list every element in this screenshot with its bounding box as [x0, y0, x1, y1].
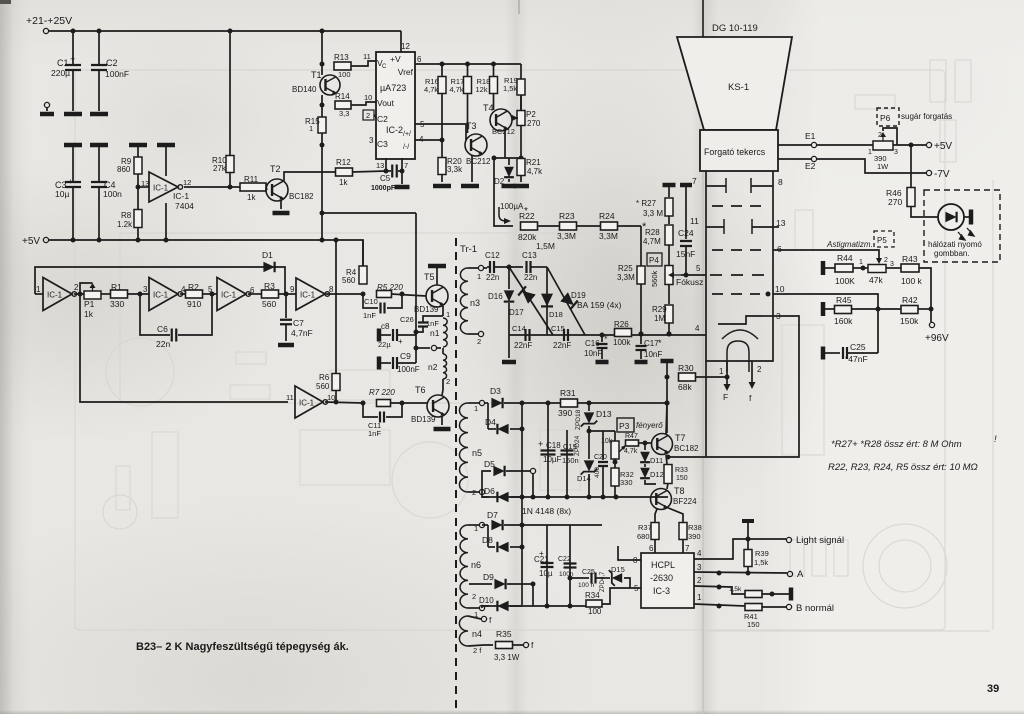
svg-text:R26: R26 — [614, 320, 629, 329]
svg-text:gombban.: gombban. — [934, 249, 970, 258]
svg-text:2: 2 — [757, 365, 762, 374]
svg-text:390: 390 — [558, 408, 572, 418]
svg-text:100K: 100K — [835, 276, 855, 286]
svg-text:150n: 150n — [562, 456, 579, 465]
svg-text:7: 7 — [692, 176, 697, 186]
svg-text:1: 1 — [36, 285, 41, 294]
svg-text:100n: 100n — [103, 189, 122, 199]
svg-text:1: 1 — [868, 149, 872, 156]
svg-text:1: 1 — [719, 367, 724, 376]
svg-text:D19: D19 — [571, 291, 586, 300]
svg-text:10: 10 — [364, 93, 372, 102]
svg-text:2: 2 — [477, 337, 481, 346]
svg-text:D8: D8 — [482, 535, 493, 545]
svg-text:IC-1: IC-1 — [153, 184, 169, 193]
svg-text:Vref: Vref — [398, 67, 414, 77]
svg-text:39: 39 — [987, 683, 999, 695]
svg-text:1k: 1k — [339, 178, 348, 187]
svg-text:+V: +V — [390, 54, 401, 64]
svg-text:1,5k: 1,5k — [503, 84, 517, 93]
svg-text:n3: n3 — [470, 298, 480, 308]
svg-text:6: 6 — [777, 244, 782, 254]
svg-text:330: 330 — [620, 478, 633, 487]
svg-text:150: 150 — [676, 475, 688, 482]
svg-text:sugár forgatás: sugár forgatás — [901, 112, 952, 121]
svg-text:100nF: 100nF — [105, 69, 129, 79]
svg-text:3: 3 — [143, 285, 148, 294]
svg-text:10µ: 10µ — [55, 189, 69, 199]
svg-text:R2: R2 — [188, 282, 199, 292]
svg-text:10µ: 10µ — [539, 569, 553, 578]
svg-text:+5V: +5V — [934, 141, 952, 152]
svg-text:T8: T8 — [674, 486, 685, 496]
svg-text:Light signál: Light signál — [796, 535, 844, 546]
svg-text:E1: E1 — [805, 131, 816, 141]
svg-text:330: 330 — [110, 299, 124, 309]
svg-text:D15: D15 — [611, 565, 625, 574]
svg-text:270: 270 — [888, 197, 902, 207]
svg-text:µA723: µA723 — [380, 83, 406, 93]
svg-text:3,3 1W: 3,3 1W — [494, 653, 520, 662]
svg-text:5: 5 — [634, 584, 639, 593]
svg-text:C16: C16 — [585, 339, 600, 348]
svg-text:R43: R43 — [902, 254, 918, 264]
svg-text:R21: R21 — [526, 158, 541, 167]
svg-text:10nF: 10nF — [644, 350, 662, 359]
svg-text:R3: R3 — [264, 281, 275, 291]
svg-text:1: 1 — [477, 272, 481, 281]
svg-text:7: 7 — [685, 544, 690, 553]
svg-text:HCPL: HCPL — [651, 560, 675, 570]
svg-text:22n: 22n — [486, 273, 499, 282]
svg-text:1nF: 1nF — [426, 319, 439, 328]
svg-text:C7: C7 — [293, 318, 304, 328]
svg-text:11: 11 — [690, 216, 699, 226]
svg-text:4: 4 — [695, 324, 700, 333]
svg-text:2: 2 — [74, 283, 79, 292]
svg-text:R14: R14 — [335, 92, 350, 101]
svg-text:400: 400 — [594, 467, 601, 478]
svg-text:4,7k: 4,7k — [450, 85, 464, 94]
svg-text:5: 5 — [696, 264, 701, 273]
svg-text:n6: n6 — [471, 560, 481, 570]
svg-text:+: + — [539, 549, 544, 558]
svg-text:1.2k: 1.2k — [117, 220, 133, 229]
svg-text:C1: C1 — [57, 58, 69, 68]
svg-text:1,5M: 1,5M — [536, 241, 555, 251]
svg-text:R12: R12 — [336, 158, 351, 167]
svg-text:11: 11 — [286, 393, 294, 402]
svg-text:R22: R22 — [519, 211, 535, 221]
svg-text:1k: 1k — [247, 193, 256, 202]
svg-text:IC-1: IC-1 — [299, 399, 315, 408]
svg-text:* R27: * R27 — [636, 199, 657, 208]
svg-text:1k: 1k — [84, 309, 94, 319]
svg-text:fényerő: fényerő — [636, 421, 663, 430]
svg-text:100 k: 100 k — [901, 276, 923, 286]
svg-text:4,7M: 4,7M — [643, 237, 661, 246]
svg-text:10: 10 — [775, 284, 785, 294]
svg-text:Tr-1: Tr-1 — [460, 244, 477, 255]
svg-text:R30: R30 — [678, 363, 694, 373]
svg-text:C9: C9 — [400, 351, 411, 361]
svg-text:3,3: 3,3 — [339, 109, 349, 118]
svg-text:B23– 2 K Nagyfeszültségű té: B23– 2 K Nagyfeszültségű tépegység ák. — [136, 641, 349, 653]
svg-text:*: * — [604, 334, 608, 344]
svg-text:1: 1 — [309, 124, 313, 133]
svg-text:P1: P1 — [84, 299, 95, 309]
svg-text:1M: 1M — [654, 314, 665, 323]
svg-text:+: + — [538, 439, 543, 449]
svg-text:D12: D12 — [650, 470, 664, 479]
svg-text:R44: R44 — [837, 253, 853, 263]
svg-text:IC-2: IC-2 — [386, 125, 403, 135]
svg-text:680: 680 — [637, 532, 650, 541]
svg-text:910: 910 — [187, 299, 201, 309]
svg-text:1nF: 1nF — [363, 311, 376, 320]
svg-text:D4: D4 — [485, 417, 496, 427]
svg-text:2: 2 — [472, 488, 476, 497]
svg-text:3,3M: 3,3M — [617, 273, 635, 282]
svg-text:P5: P5 — [877, 236, 887, 245]
svg-text:C17: C17 — [644, 339, 659, 348]
svg-text:IC-1: IC-1 — [47, 291, 63, 300]
svg-text:KS-1: KS-1 — [728, 82, 749, 93]
svg-text:P2: P2 — [526, 110, 536, 119]
svg-text:6: 6 — [649, 544, 654, 553]
svg-text:F: F — [723, 392, 728, 402]
svg-text:T2: T2 — [270, 164, 281, 174]
svg-text:D5: D5 — [484, 459, 495, 469]
svg-text:270: 270 — [527, 119, 541, 128]
svg-text:4,7k: 4,7k — [527, 167, 543, 176]
svg-text:T6: T6 — [415, 385, 426, 395]
svg-text:n1: n1 — [430, 328, 440, 338]
svg-text:1nF: 1nF — [368, 429, 381, 438]
svg-text:D9: D9 — [483, 572, 494, 582]
svg-text:+21-+25V: +21-+25V — [26, 15, 72, 27]
svg-text:3: 3 — [369, 136, 374, 145]
svg-text:560k: 560k — [650, 270, 659, 287]
svg-text:10nF: 10nF — [584, 349, 602, 358]
svg-text:1: 1 — [859, 259, 863, 266]
svg-text:DG 10-119: DG 10-119 — [712, 23, 758, 34]
svg-text:68k: 68k — [678, 382, 692, 392]
svg-text:100nF: 100nF — [397, 365, 420, 374]
svg-text:Astigmatizm.: Astigmatizm. — [826, 240, 873, 249]
svg-text:*47nF: *47nF — [845, 354, 868, 364]
svg-text:7404: 7404 — [175, 201, 194, 211]
svg-text:22µ: 22µ — [378, 340, 391, 349]
svg-text:R42: R42 — [902, 295, 918, 305]
svg-text:C3: C3 — [377, 139, 388, 149]
svg-text:R8: R8 — [121, 211, 132, 220]
svg-text:R33: R33 — [675, 467, 688, 474]
svg-text:R13: R13 — [334, 53, 349, 62]
svg-text:D13: D13 — [596, 409, 612, 419]
svg-text:12: 12 — [401, 42, 410, 51]
svg-text:8: 8 — [329, 285, 334, 294]
svg-text:R28: R28 — [645, 228, 660, 237]
svg-text:-2630: -2630 — [650, 573, 673, 583]
svg-text:47k: 47k — [869, 275, 883, 285]
svg-text:1: 1 — [446, 310, 450, 319]
svg-text:C10: C10 — [364, 297, 378, 306]
svg-text:4: 4 — [697, 549, 702, 558]
svg-text:R37: R37 — [638, 523, 652, 532]
svg-text:C25: C25 — [582, 569, 595, 576]
svg-text:4,7nF: 4,7nF — [291, 328, 313, 338]
svg-text:220µ: 220µ — [51, 68, 70, 78]
svg-text:820k: 820k — [518, 232, 537, 242]
svg-text:C13: C13 — [522, 251, 537, 260]
svg-text:R34: R34 — [585, 591, 600, 600]
svg-text:3: 3 — [894, 149, 898, 156]
svg-text:BC212: BC212 — [466, 157, 491, 166]
svg-text:BC182: BC182 — [674, 444, 699, 453]
svg-text:15nF: 15nF — [676, 249, 695, 259]
svg-text:22n: 22n — [156, 339, 170, 349]
svg-text:C12: C12 — [485, 251, 500, 260]
svg-text:A: A — [797, 569, 804, 580]
svg-text:R7 220: R7 220 — [369, 388, 395, 397]
svg-text:E2: E2 — [805, 161, 816, 171]
svg-text:12: 12 — [183, 178, 191, 187]
svg-text:R24: R24 — [599, 211, 615, 221]
svg-text:10µF: 10µF — [543, 455, 562, 464]
svg-text:1: 1 — [697, 593, 702, 602]
svg-text:3,3M: 3,3M — [557, 231, 576, 241]
svg-text:R1: R1 — [111, 282, 122, 292]
svg-text:560: 560 — [316, 382, 330, 391]
svg-text:n2: n2 — [428, 362, 438, 372]
svg-text:C15: C15 — [551, 324, 565, 333]
svg-text:hálózati nyomó: hálózati nyomó — [928, 240, 982, 249]
svg-text:100k: 100k — [613, 338, 631, 347]
svg-text:B normál: B normál — [796, 603, 834, 614]
svg-text:2: 2 — [878, 132, 882, 139]
svg-text:BC182: BC182 — [289, 192, 314, 201]
svg-text:3,3M: 3,3M — [599, 231, 618, 241]
svg-text:c8: c8 — [381, 322, 390, 331]
svg-text:D2: D2 — [494, 177, 505, 186]
svg-text:Forgató tekercs: Forgató tekercs — [704, 147, 766, 157]
svg-text:10k: 10k — [601, 438, 613, 445]
svg-text:R39: R39 — [755, 549, 769, 558]
svg-text:P6: P6 — [880, 113, 891, 123]
svg-text:C20: C20 — [594, 454, 607, 461]
svg-text:BD140: BD140 — [292, 85, 317, 94]
svg-text:100µA: 100µA — [500, 202, 524, 211]
svg-text:D7: D7 — [487, 510, 498, 520]
svg-text:f: f — [749, 393, 752, 403]
svg-text:+: + — [68, 177, 73, 186]
svg-text:R35: R35 — [496, 629, 512, 639]
svg-text:f: f — [531, 640, 534, 650]
svg-text:22n: 22n — [524, 273, 537, 282]
svg-text:C18: C18 — [546, 441, 561, 450]
svg-text:R23: R23 — [559, 211, 575, 221]
svg-text:100: 100 — [588, 607, 602, 616]
svg-text:390: 390 — [688, 532, 701, 541]
svg-text:1,5k: 1,5k — [754, 558, 768, 567]
svg-text:n5: n5 — [472, 448, 482, 458]
svg-text:160k: 160k — [834, 316, 853, 326]
svg-text:560: 560 — [342, 276, 356, 285]
svg-text:T1: T1 — [311, 70, 322, 80]
svg-text:2: 2 — [472, 592, 476, 601]
svg-text:+5V: +5V — [22, 236, 40, 247]
svg-text:IC-3: IC-3 — [653, 586, 670, 596]
svg-text:R31: R31 — [560, 388, 576, 398]
svg-text:150k: 150k — [900, 316, 919, 326]
svg-text:150: 150 — [747, 620, 760, 629]
svg-text:T4: T4 — [483, 103, 494, 113]
svg-text:-7V: -7V — [934, 169, 950, 180]
svg-text:6: 6 — [417, 55, 422, 64]
svg-text:3,3k: 3,3k — [447, 165, 463, 174]
svg-text:R11: R11 — [244, 175, 259, 184]
svg-text:1,5k: 1,5k — [729, 586, 742, 593]
svg-text:100: 100 — [338, 70, 351, 79]
svg-text:D1: D1 — [262, 250, 273, 260]
svg-text:/-/: /-/ — [403, 144, 409, 151]
svg-text:BD139: BD139 — [411, 415, 436, 424]
svg-text:13: 13 — [376, 161, 384, 170]
svg-text:22nF: 22nF — [553, 341, 571, 350]
svg-text:8: 8 — [778, 177, 783, 187]
svg-text:T7: T7 — [675, 433, 686, 443]
svg-text:/+/: /+/ — [403, 131, 411, 138]
svg-text:11: 11 — [363, 52, 371, 61]
svg-text:D18: D18 — [549, 310, 563, 319]
svg-text:D17: D17 — [509, 308, 524, 317]
svg-text:5: 5 — [208, 285, 213, 294]
svg-text:2: 2 — [884, 257, 888, 264]
svg-text:*: * — [658, 338, 662, 348]
svg-text:27k: 27k — [213, 164, 227, 173]
svg-text:22nF: 22nF — [514, 341, 532, 350]
svg-text:IC-1: IC-1 — [221, 291, 237, 300]
svg-text:2: 2 — [366, 111, 370, 120]
svg-text:560: 560 — [262, 299, 276, 309]
svg-text:IC-1: IC-1 — [173, 191, 189, 201]
svg-text:f: f — [489, 615, 492, 625]
svg-text:ZPD4,7: ZPD4,7 — [600, 571, 606, 592]
svg-text:BA 159 (4x): BA 159 (4x) — [577, 300, 622, 310]
svg-text:IC-1: IC-1 — [300, 291, 316, 300]
svg-text:C24: C24 — [678, 228, 694, 238]
svg-text:1N 4148 (8x): 1N 4148 (8x) — [522, 506, 571, 516]
svg-text:D11: D11 — [650, 456, 663, 465]
svg-text:R29: R29 — [652, 305, 667, 314]
svg-text:BC212: BC212 — [492, 127, 515, 136]
svg-text:C26: C26 — [400, 315, 414, 324]
svg-text:C25: C25 — [850, 342, 866, 352]
svg-text:860: 860 — [117, 165, 131, 174]
svg-text:C2: C2 — [106, 58, 118, 68]
svg-text:R6: R6 — [319, 373, 330, 382]
svg-text:Vout: Vout — [377, 98, 395, 108]
svg-text:n4: n4 — [472, 629, 482, 639]
svg-text:+96V: +96V — [925, 333, 949, 344]
svg-text:+: + — [398, 337, 403, 346]
svg-text:R47: R47 — [625, 433, 638, 440]
svg-text:2 f: 2 f — [473, 646, 482, 655]
svg-text:+: + — [70, 54, 75, 64]
svg-text:Fókusz: Fókusz — [676, 277, 703, 287]
svg-text:4,7k: 4,7k — [624, 448, 638, 455]
svg-text:1W: 1W — [877, 162, 889, 171]
svg-text:C14: C14 — [512, 324, 526, 333]
svg-text:BD139: BD139 — [414, 305, 439, 314]
svg-text:1: 1 — [474, 524, 478, 533]
svg-text:12k: 12k — [476, 85, 488, 94]
svg-text:C22: C22 — [558, 556, 571, 563]
svg-text:BF224: BF224 — [673, 497, 697, 506]
svg-text:1000pF: 1000pF — [371, 185, 396, 192]
svg-text:100 n: 100 n — [578, 582, 595, 589]
svg-text:*R27+ *R28 össz ért: 8 M Ohm: *R27+ *R28 össz ért: 8 M Ohm — [831, 439, 962, 450]
svg-text:C2: C2 — [377, 114, 388, 124]
svg-text:T5: T5 — [424, 272, 435, 282]
svg-text:9: 9 — [290, 285, 295, 294]
svg-text:3: 3 — [697, 563, 702, 572]
svg-text:!: ! — [994, 434, 997, 445]
svg-text:R45: R45 — [836, 295, 852, 305]
svg-text:ZPD24: ZPD24 — [574, 435, 581, 456]
svg-text:4,7k: 4,7k — [424, 85, 438, 94]
svg-text:2: 2 — [446, 377, 450, 386]
svg-text:C6: C6 — [157, 324, 168, 334]
svg-text:D10: D10 — [479, 596, 494, 605]
svg-text:1: 1 — [474, 404, 478, 413]
svg-text:C5: C5 — [380, 174, 391, 183]
svg-text:ZPD18: ZPD18 — [575, 409, 582, 430]
svg-text:D14: D14 — [577, 474, 591, 483]
svg-text:2: 2 — [697, 576, 702, 585]
svg-text:IC-1: IC-1 — [153, 291, 169, 300]
svg-text:R22, R23, R24, R5 össz ért: 1: R22, R23, R24, R5 össz ért: 10 MΩ — [828, 462, 978, 473]
svg-text:D3: D3 — [490, 386, 501, 396]
svg-text:P3: P3 — [619, 421, 630, 431]
svg-text:7: 7 — [404, 161, 408, 170]
svg-text:3: 3 — [890, 261, 894, 268]
svg-text:C: C — [382, 64, 387, 70]
svg-text:D6: D6 — [484, 486, 495, 496]
svg-text:R38: R38 — [688, 523, 702, 532]
svg-text:P4: P4 — [649, 256, 659, 265]
svg-text:3,3 M: 3,3 M — [643, 209, 663, 218]
svg-text:D16: D16 — [488, 292, 503, 301]
svg-text:R25: R25 — [618, 264, 633, 273]
